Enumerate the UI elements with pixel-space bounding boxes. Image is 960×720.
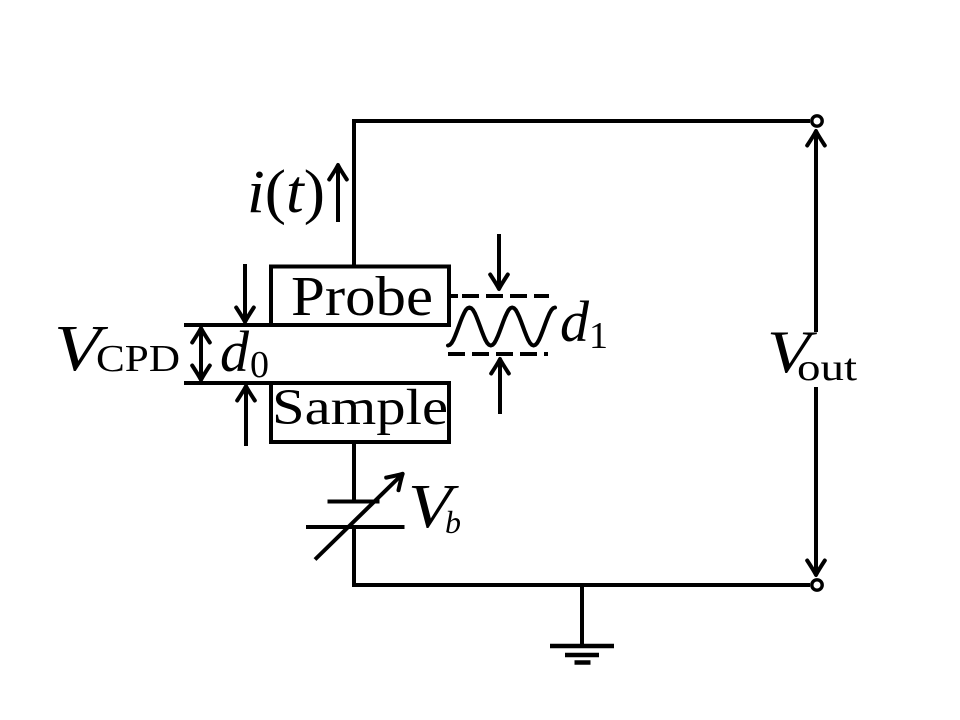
svg-text:b: b: [445, 504, 461, 540]
wire top horizontal: [354, 119, 810, 123]
ground stem: [580, 585, 584, 646]
wire sample to battery: [352, 440, 356, 501]
wire bottom horizontal: [352, 583, 810, 587]
probe box P: [271, 267, 449, 326]
d1 arrow up: [498, 360, 502, 414]
Vout arrow lower: [814, 387, 818, 574]
svg-text:d: d: [560, 289, 590, 354]
gap arrow up (to sample plate): [244, 387, 248, 446]
oscillation sine wave: [448, 308, 555, 346]
wire battery to bottom: [352, 527, 356, 585]
svg-text:out: out: [797, 347, 858, 389]
sample box: [271, 383, 449, 442]
svg-text:0: 0: [250, 344, 269, 386]
ground bar 1: [550, 644, 614, 649]
terminal bottom right: [812, 580, 822, 590]
terminal top right: [812, 116, 822, 126]
ground bar 3: [575, 660, 591, 665]
Vout arrow upper: [814, 132, 818, 332]
probe plate extension wire: [184, 323, 273, 327]
svg-text:d: d: [220, 319, 250, 384]
wire left vertical to probe: [352, 119, 356, 267]
battery plate bottom long: [306, 525, 405, 529]
sample plate extension wire: [184, 381, 273, 385]
svg-text:i(t): i(t): [247, 159, 325, 226]
stub from probe to dashed line: [449, 294, 458, 298]
svg-text:Sample: Sample: [272, 380, 448, 436]
current arrow i(t): [336, 166, 340, 222]
d1 arrow down: [497, 234, 501, 288]
gap arrow down (to probe plate): [243, 264, 247, 321]
gap dimension double arrow d0: [199, 329, 203, 379]
ground bar 2: [565, 653, 599, 658]
svg-text:CPD: CPD: [96, 338, 180, 380]
svg-text:Probe: Probe: [291, 266, 433, 328]
svg-text:1: 1: [589, 315, 608, 357]
dashed line bottom d1: [448, 352, 548, 356]
variable arrow through battery: [315, 475, 402, 560]
battery plate top short: [328, 500, 380, 504]
dashed line top d1: [462, 294, 549, 298]
